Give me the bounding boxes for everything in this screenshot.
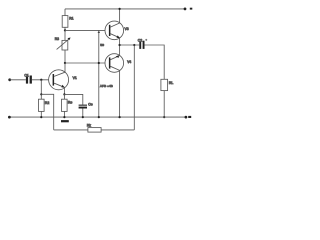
- svg-text:R1: R1: [69, 16, 73, 20]
- svg-text:V1: V1: [73, 76, 77, 80]
- svg-text:Ce: Ce: [88, 102, 92, 106]
- resistor R1: [62, 9, 73, 31]
- wire feedback riser: [133, 45, 135, 130]
- terminal supply top right: [184, 7, 193, 10]
- svg-text:RL: RL: [169, 81, 173, 85]
- wire C2 to RL: [145, 45, 165, 79]
- trimmer resistor R3: [55, 30, 71, 63]
- node V1 emitter dot: [63, 93, 65, 95]
- node label AFB +4B: [100, 84, 113, 88]
- ground: [61, 120, 69, 122]
- resistor Rg feedback: [87, 124, 101, 133]
- transistor V1: [49, 63, 77, 94]
- node label ue: [100, 43, 104, 47]
- terminal output bottom right: [185, 116, 192, 119]
- svg-text:R2: R2: [45, 101, 49, 105]
- wire top supply rail: [65, 8, 185, 10]
- node RL bottom dot: [163, 116, 165, 118]
- svg-text:Rk: Rk: [87, 124, 91, 128]
- node V1 collector junction dot: [64, 62, 66, 64]
- wire bias chain vertical: [98, 30, 100, 117]
- wire feedback bottom right: [101, 129, 134, 131]
- resistor RL: [161, 79, 173, 117]
- wire V3 base line: [65, 29, 109, 31]
- resistor R2: [39, 80, 50, 117]
- node midpoint-cap dot: [133, 44, 135, 46]
- svg-text:Re: Re: [68, 100, 72, 104]
- node midpoint dot: [118, 44, 120, 46]
- wire emitter to Ce: [64, 94, 82, 104]
- wire input to C1: [10, 79, 26, 81]
- node bias-chain mid dot: [98, 62, 100, 64]
- transistor V4: [105, 45, 131, 117]
- input terminal: [8, 78, 11, 81]
- wire feedback jog: [41, 94, 53, 130]
- node bias-chain top dot: [98, 31, 100, 34]
- capacitor Ce: [79, 102, 93, 117]
- node bias rail dot: [98, 116, 100, 118]
- transistor V3: [105, 9, 129, 45]
- svg-text:AFB +4B: AFB +4B: [100, 84, 113, 88]
- node V1 base dot: [40, 79, 42, 81]
- svg-text:C2: C2: [138, 38, 142, 42]
- resistor Re: [62, 94, 73, 117]
- wire bottom rail: [9, 116, 186, 118]
- node feedback tap dot: [40, 93, 42, 95]
- node V4 collector rail dot: [118, 116, 120, 118]
- wire midpoint to C2: [120, 44, 140, 46]
- wire C1 to V1 base: [32, 79, 53, 81]
- terminal bottom left: [8, 116, 11, 119]
- node V3 collector rail dot: [118, 8, 120, 10]
- node R2 rail dot: [40, 116, 42, 118]
- svg-text:C1: C1: [24, 73, 28, 77]
- svg-text:V4: V4: [127, 60, 131, 64]
- svg-text:V3: V3: [125, 27, 129, 31]
- capacitor C2: [138, 38, 147, 49]
- node Re rail dot: [63, 116, 65, 118]
- wire feedback bottom left: [54, 129, 88, 131]
- node Ce rail dot: [82, 116, 84, 118]
- svg-text:ue: ue: [100, 43, 104, 47]
- svg-text:R3: R3: [55, 37, 59, 41]
- capacitor C1: [24, 73, 32, 83]
- wire V4 base line: [65, 62, 109, 64]
- node junction R1-trimmer dot: [64, 29, 66, 31]
